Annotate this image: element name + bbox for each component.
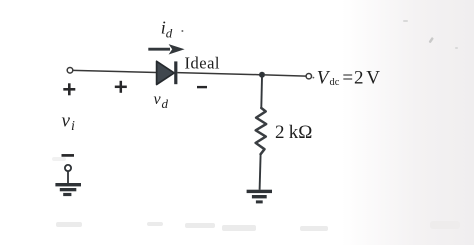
wire: input terminal to diode anode (73, 70, 157, 72)
ground: input side (55, 183, 81, 196)
label: - (vi polarity) (62, 154, 75, 157)
diode D1 (ideal) (157, 61, 178, 84)
wire: vi bottom terminal to ground (67, 171, 69, 183)
label: - (vd cathode polarity) (197, 86, 207, 88)
svg-text:vd: vd (154, 91, 169, 111)
svg-text:Vdc=2V: Vdc=2V (317, 67, 381, 88)
resistor R1 2 kOhm (256, 108, 267, 154)
svg-text:id: id (161, 17, 173, 40)
terminal: input (vi top) (67, 68, 73, 74)
wire: junction to Vdc terminal (265, 75, 306, 76)
terminal: input (vi bottom) (65, 165, 71, 171)
terminal: Vdc (306, 74, 311, 79)
svg-text:2kΩ: 2kΩ (275, 122, 312, 143)
label: + (vd anode polarity) (115, 81, 127, 93)
node: junction at top of resistor (259, 72, 265, 78)
current arrow: id direction (148, 44, 184, 54)
wire: junction down to resistor (260, 77, 263, 108)
ground: output side (247, 190, 272, 204)
wire: resistor to ground (260, 154, 261, 190)
label: + (vi polarity) (63, 83, 75, 95)
svg-text:Ideal: Ideal (185, 53, 220, 72)
wire: diode cathode to junction node (177, 73, 259, 75)
svg-text:vi: vi (62, 111, 76, 135)
